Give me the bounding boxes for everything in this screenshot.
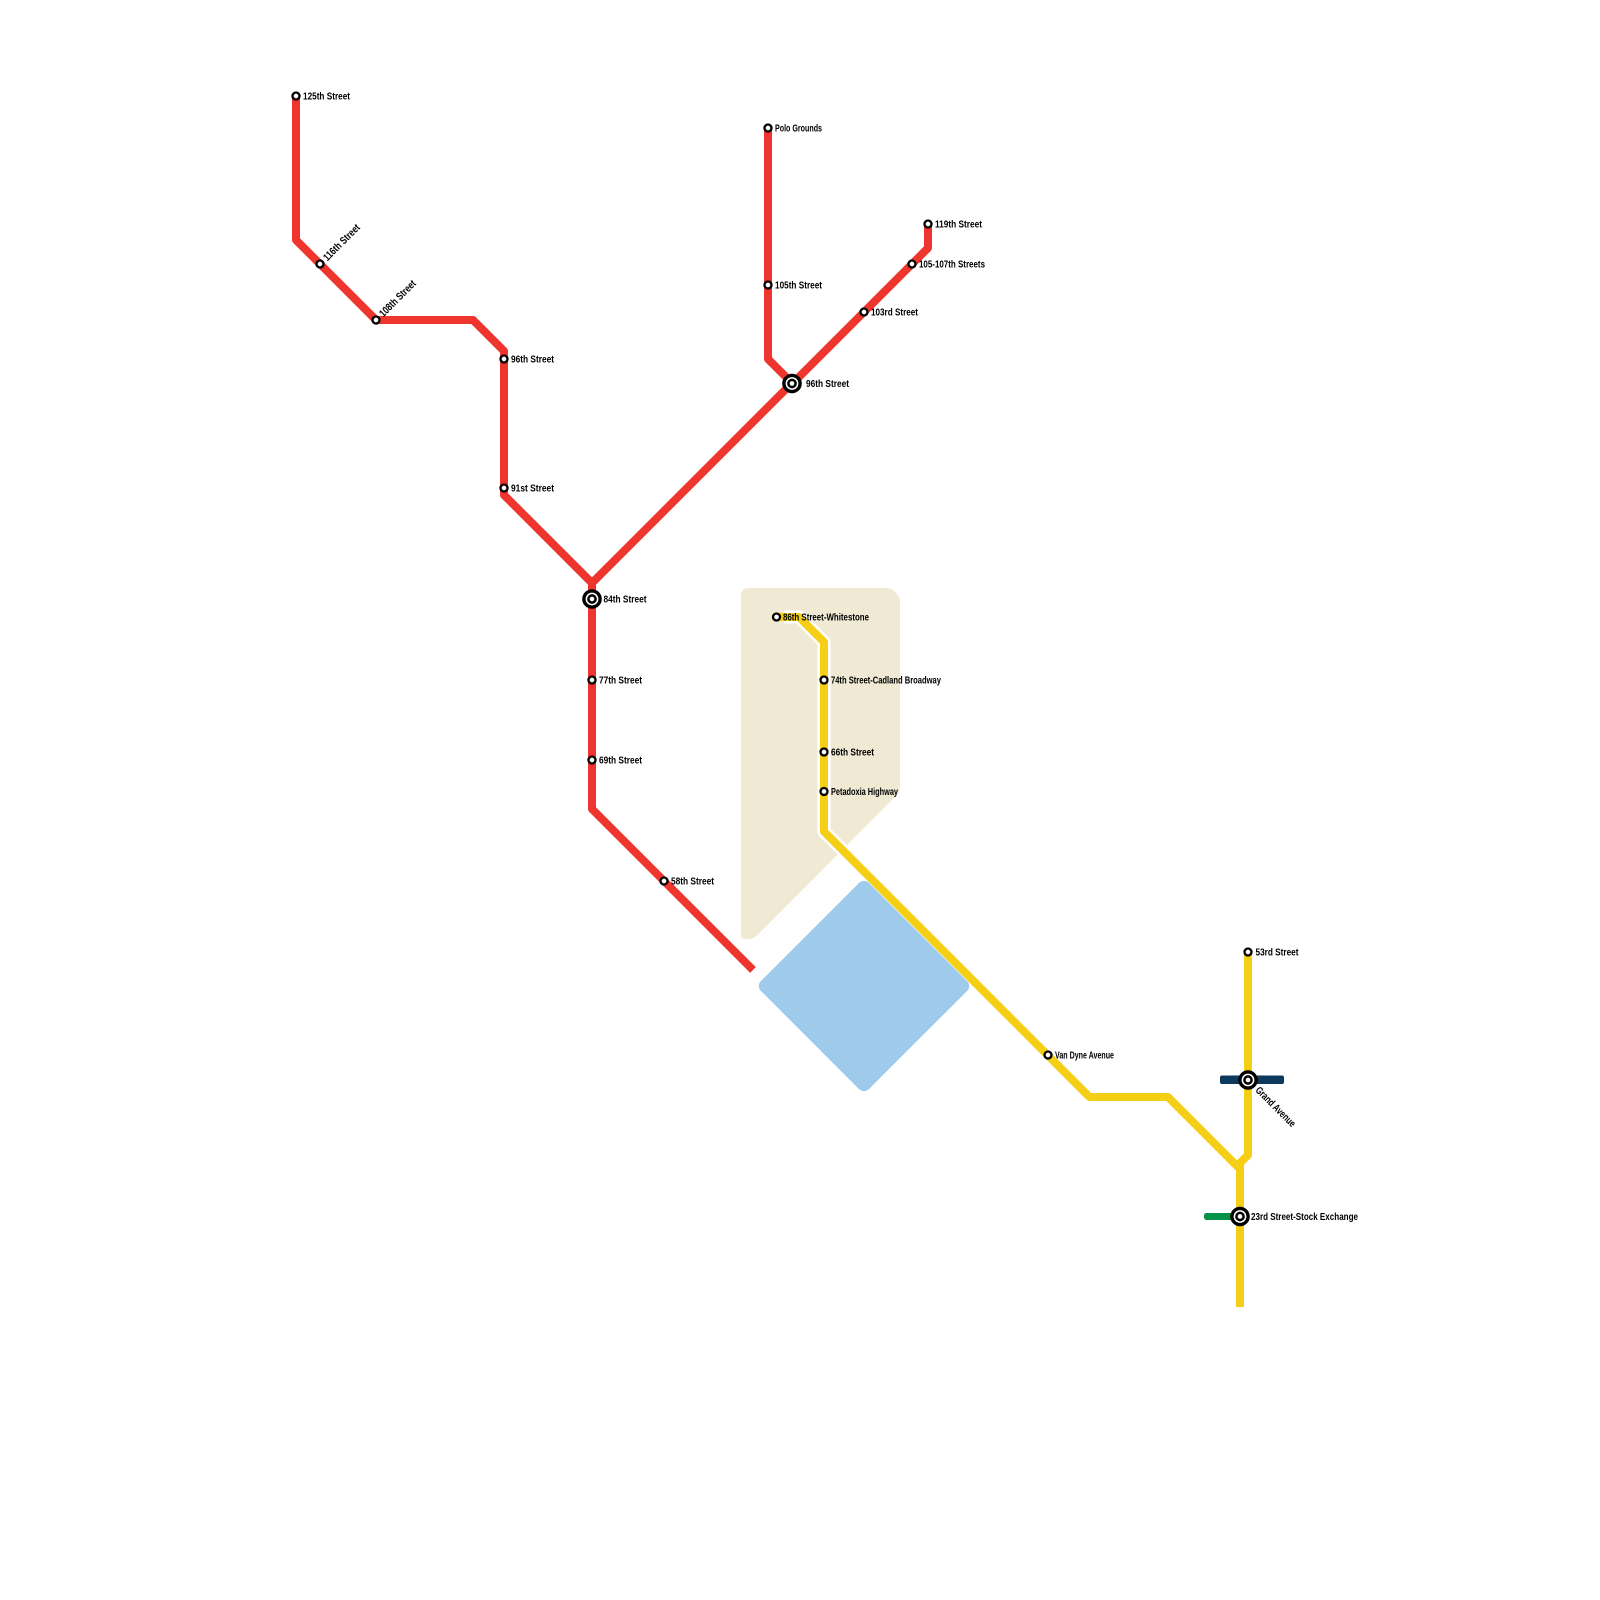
- svg-text:96th Street: 96th Street: [806, 379, 849, 390]
- svg-text:91st Street: 91st Street: [511, 483, 554, 494]
- svg-text:86th Street-Whitestone: 86th Street-Whitestone: [783, 612, 869, 623]
- svg-text:105th Street: 105th Street: [775, 280, 822, 291]
- svg-text:125th Street: 125th Street: [303, 91, 350, 102]
- svg-text:23rd Street-Stock Exchange: 23rd Street-Stock Exchange: [1251, 1212, 1358, 1223]
- svg-text:105-107th Streets: 105-107th Streets: [919, 259, 985, 270]
- svg-text:Van Dyne Avenue: Van Dyne Avenue: [1055, 1050, 1114, 1061]
- svg-text:74th Street-Cadland Broadway: 74th Street-Cadland Broadway: [831, 675, 941, 686]
- svg-text:58th Street: 58th Street: [671, 876, 714, 887]
- svg-text:53rd Street: 53rd Street: [1256, 947, 1299, 958]
- svg-text:77th Street: 77th Street: [599, 675, 642, 686]
- svg-text:66th Street: 66th Street: [831, 747, 874, 758]
- svg-text:96th Street: 96th Street: [511, 354, 554, 365]
- svg-text:Polo Grounds: Polo Grounds: [775, 123, 822, 134]
- svg-text:119th Street: 119th Street: [935, 219, 982, 230]
- svg-text:69th Street: 69th Street: [599, 755, 642, 766]
- svg-text:Petadoxia Highway: Petadoxia Highway: [831, 787, 898, 798]
- svg-text:84th Street: 84th Street: [604, 595, 647, 606]
- svg-text:103rd Street: 103rd Street: [871, 307, 918, 318]
